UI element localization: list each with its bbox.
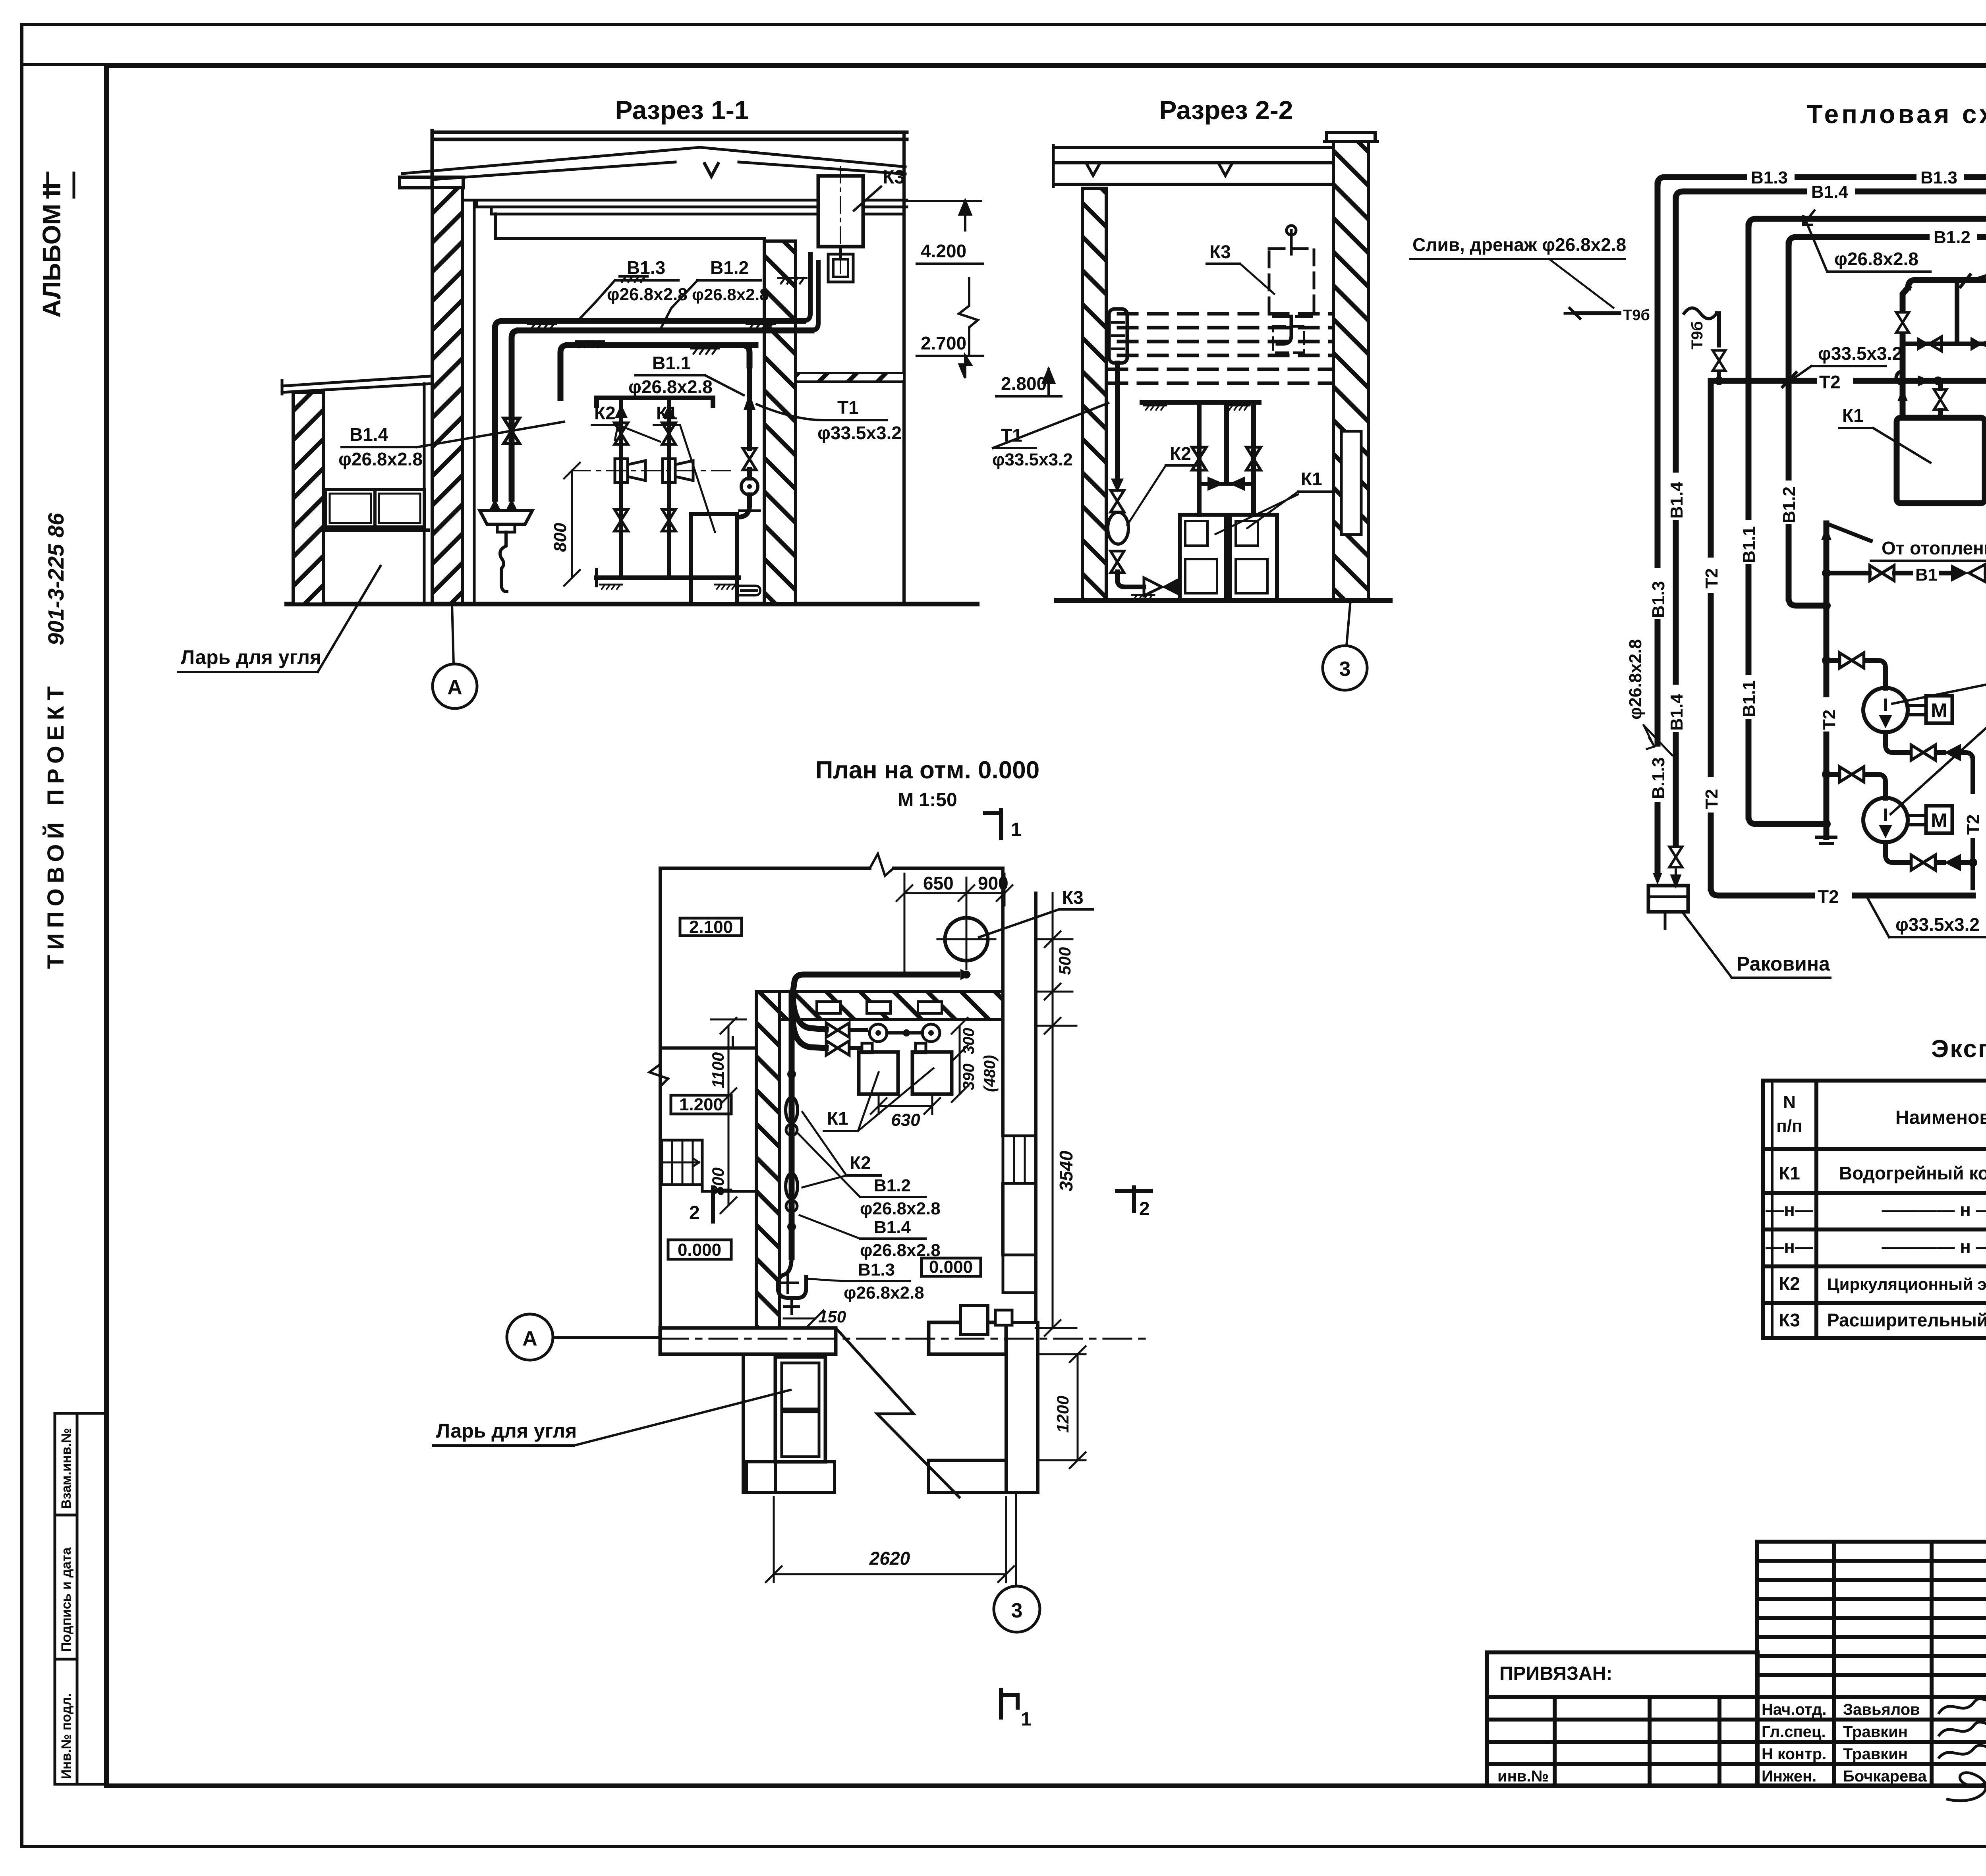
svg-text:К1: К1 [656, 403, 678, 423]
label 1.200 framed [671, 1095, 731, 1114]
svg-text:В1.3: В1.3 [858, 1260, 895, 1280]
svg-text:Разрез 1-1: Разрез 1-1 [615, 95, 749, 125]
svg-text:Наименование: Наименование [1895, 1107, 1986, 1128]
left wall hatched [432, 187, 462, 604]
svg-text:В1.4: В1.4 [1811, 182, 1848, 202]
bottom wall right band [929, 1322, 1006, 1354]
svg-text:К3: К3 [1209, 241, 1231, 262]
bottom wall centerline [660, 1338, 1152, 1340]
ceiling pipe over boilers [1142, 400, 1259, 405]
dim 150 [784, 1310, 823, 1326]
upper pump branch [1826, 658, 1837, 663]
pipe end detail bottom [778, 1257, 806, 1298]
svg-text:К2: К2 [594, 403, 616, 423]
section mark 2 right [1117, 1187, 1151, 1211]
axis circle A plan [507, 1314, 553, 1360]
pipe B1.3 top header [1658, 177, 1986, 190]
dim 630 [879, 1105, 932, 1107]
svg-text:0.000: 0.000 [678, 1240, 721, 1260]
svg-text:φ26.8х2.8: φ26.8х2.8 [607, 285, 688, 304]
svg-text:φ26.8х2.8: φ26.8х2.8 [628, 376, 713, 397]
label 0.000 framed right [922, 1258, 981, 1276]
svg-text:3540: 3540 [1056, 1150, 1076, 1191]
B1 make-up branch [1826, 571, 1869, 575]
svg-text:От отопления см. черт.ОВ: От отопления см. черт.ОВ [1882, 538, 1986, 558]
svg-text:Инжен.: Инжен. [1762, 1768, 1816, 1785]
porch right wall [1006, 1322, 1038, 1492]
up arrows into T2 crossing [1897, 388, 1908, 401]
svg-text:φ26.8х2.8: φ26.8х2.8 [1834, 249, 1918, 269]
svg-text:Т2: Т2 [1820, 710, 1839, 730]
label 2.100 framed [680, 918, 742, 936]
level mark 4.200 [907, 200, 981, 202]
tank risers through wall [803, 254, 818, 330]
svg-text:К1: К1 [827, 1108, 848, 1129]
riser T2 [1708, 381, 1714, 888]
svg-text:Расширительный БАК: Расширительный БАК [1827, 1310, 1986, 1330]
centerline dash through cones [572, 470, 735, 471]
section mark 1 bottom [1001, 1690, 1018, 1718]
black valve on downpipe [1111, 479, 1124, 492]
svg-text:В1.2: В1.2 [874, 1176, 911, 1195]
dim 2620 [774, 1573, 1006, 1575]
floor line [1057, 598, 1390, 603]
bottom wall left band [660, 1328, 836, 1354]
flow arrows on T2 header [1918, 375, 1931, 386]
T1 riser with arrow [747, 365, 752, 505]
svg-text:—н—: —н— [1766, 1236, 1813, 1257]
building top-left edge [431, 131, 434, 187]
pipe B1.1 top header [1748, 201, 1986, 226]
svg-text:φ33.5х3.2: φ33.5х3.2 [1818, 343, 1902, 364]
arrows into sink [1653, 873, 1662, 885]
svg-text:ПРИВЯЗАН:: ПРИВЯЗАН: [1499, 1663, 1612, 1684]
svg-text:Т2: Т2 [1702, 568, 1721, 589]
labels on B1.3 header [1747, 167, 1986, 246]
leader B1.4 [417, 422, 564, 447]
svg-text:2.700: 2.700 [921, 333, 966, 353]
valve below pump [1111, 551, 1124, 573]
svg-text:φ26.8х2.8: φ26.8х2.8 [860, 1199, 941, 1218]
plan gate valve 2 [790, 1168, 794, 1174]
coal bin box [775, 1357, 825, 1462]
boiler connections circles [869, 1024, 887, 1042]
sink trap [500, 532, 507, 592]
riser valves [1192, 447, 1206, 470]
top boundary break squiggle [870, 854, 894, 876]
porch bottom band left [746, 1462, 835, 1492]
right annex ceiling hatched band [796, 373, 904, 382]
svg-text:2.100: 2.100 [689, 917, 733, 937]
svg-text:К1: К1 [1779, 1163, 1800, 1183]
pump K2 oval [1108, 512, 1128, 544]
left privyazan block [1487, 1652, 1758, 1786]
left wall hatched [1082, 188, 1106, 600]
right wall column [1001, 868, 1005, 992]
T1 riser plate [1109, 309, 1127, 363]
pipe B1.4 top header [1676, 191, 1986, 199]
pump 1 discharge [1886, 732, 1909, 753]
axis circle 3 [1323, 646, 1367, 690]
svg-text:Циркуляционный электронасос: Циркуляционный электронасос [1827, 1275, 1986, 1293]
K3 dashed tank [1269, 249, 1314, 317]
top band line [22, 63, 1986, 66]
svg-text:2: 2 [689, 1202, 700, 1224]
dim 800 [571, 471, 573, 578]
right hatched column [764, 241, 796, 604]
svg-text:Т2: Т2 [1702, 789, 1721, 809]
dim line vertical interior [728, 1026, 730, 1205]
K3 tank circle on plan [945, 918, 988, 961]
valve on T1 riser [743, 448, 756, 470]
svg-text:В1.4: В1.4 [350, 424, 388, 445]
svg-text:В.1.3: В.1.3 [1649, 757, 1668, 799]
svg-text:Завьялов: Завьялов [1843, 1701, 1920, 1718]
valve on riser [504, 418, 520, 444]
ground marks on pipes [528, 324, 556, 330]
suction collector vertical [1824, 523, 1830, 837]
svg-text:φ26.8х2.8: φ26.8х2.8 [338, 449, 423, 469]
label 0.000 framed left [668, 1240, 731, 1259]
bottom manifold [597, 575, 739, 580]
svg-text:Инв.№ подл.: Инв.№ подл. [59, 1693, 74, 1779]
svg-text:630: 630 [891, 1110, 920, 1130]
line jump hooks at T2 crossings [1896, 371, 1903, 384]
feed stack left [619, 398, 623, 578]
svg-text:п/п: п/п [1776, 1116, 1802, 1136]
pump 1 circle [1863, 688, 1908, 732]
svg-text:N: N [1783, 1092, 1796, 1112]
svg-text:Т2: Т2 [1818, 886, 1839, 907]
feed stack right [667, 398, 671, 578]
vents in top wall [817, 1002, 840, 1013]
T1 header [1908, 280, 1986, 288]
roof slab lines [1053, 147, 1368, 184]
svg-text:1200: 1200 [1053, 1396, 1072, 1433]
break zigzag right [959, 278, 978, 353]
svg-text:В1.1: В1.1 [1739, 526, 1759, 563]
pipe B1.2 horizontal [519, 328, 811, 334]
svg-text:В1: В1 [1915, 565, 1938, 585]
right wall below band [902, 382, 906, 604]
lower pump branch [1826, 772, 1837, 777]
svg-text:Ларь для угля: Ларь для угля [436, 1420, 577, 1442]
floor line [287, 602, 977, 606]
svg-text:800: 800 [551, 523, 570, 552]
svg-text:М: М [1931, 809, 1947, 832]
svg-text:В1.3: В1.3 [1751, 168, 1788, 187]
svg-text:Травкин: Травкин [1843, 1745, 1908, 1763]
dim 3540/500 right [1052, 893, 1054, 1328]
svg-text:800: 800 [709, 1168, 727, 1195]
svg-text:А: А [522, 1327, 537, 1350]
interior face lines [780, 1018, 1003, 1021]
branch arrow on B1.1 header [1803, 210, 1814, 225]
top wall hatched band [756, 992, 1003, 1019]
svg-text:АЛЬБОМ II: АЛЬБОМ II [37, 183, 66, 318]
svg-text:Тепловая схема котельной: Тепловая схема котельной [1806, 99, 1986, 129]
svg-text:φ26.8х2.8: φ26.8х2.8 [1626, 639, 1645, 720]
svg-text:4.200: 4.200 [921, 241, 966, 261]
stairs [662, 1140, 702, 1185]
annex left wall hatched [293, 392, 324, 604]
T96 drain line left [1575, 311, 1648, 315]
svg-text:В1.2: В1.2 [1779, 486, 1799, 523]
valve-with-arrow at floor [1144, 578, 1162, 596]
svg-text:—н—: —н— [1766, 1199, 1813, 1220]
pipe B1.2 riser to tap [512, 330, 519, 499]
ground marks under manifold [600, 585, 622, 589]
svg-text:2620: 2620 [869, 1548, 910, 1569]
svg-text:инв.№: инв.№ [1497, 1768, 1549, 1785]
svg-text:———— н ————: ———— н ———— [1882, 1236, 1986, 1257]
svg-text:К2: К2 [1779, 1273, 1800, 1294]
svg-text:К3: К3 [1062, 887, 1084, 908]
svg-text:Подпись и дата: Подпись и дата [59, 1547, 74, 1652]
svg-text:φ26.8х2.8: φ26.8х2.8 [692, 285, 769, 304]
axis leader A [452, 604, 454, 664]
boiler inlet valves from T2 [1938, 381, 1943, 388]
svg-text:В1.1: В1.1 [652, 353, 691, 373]
svg-text:1100: 1100 [709, 1052, 727, 1088]
svg-text:Слив, дренаж φ26.8х2.8: Слив, дренаж φ26.8х2.8 [1412, 234, 1626, 255]
leader coal bin [318, 566, 381, 672]
svg-text:Т2: Т2 [1819, 372, 1841, 392]
svg-text:3: 3 [1011, 1599, 1023, 1622]
right wall outer edge [902, 132, 906, 382]
building top slab double line [432, 132, 907, 139]
svg-text:650: 650 [923, 873, 954, 894]
T2 bottom header [1711, 888, 1973, 896]
annex window band [326, 490, 424, 527]
T1 downpipe [1115, 363, 1120, 467]
left stamp column [55, 1413, 106, 1784]
svg-text:Водогрейный котел: Водогрейный котел [1839, 1163, 1986, 1183]
svg-text:К3: К3 [883, 167, 905, 188]
gauge circle on T1 riser [741, 478, 758, 495]
T2 label on discharge riser [1962, 794, 1982, 838]
svg-text:390: 390 [960, 1063, 978, 1090]
svg-text:К1: К1 [1301, 469, 1322, 489]
middle signatures column [1757, 1542, 1986, 1786]
ceiling line 2 [477, 200, 907, 207]
left wall hatched [756, 992, 780, 1328]
svg-text:φ33.5х3.2: φ33.5х3.2 [817, 423, 902, 443]
svg-text:В1.3: В1.3 [627, 257, 665, 278]
valves at boiler manifold top [793, 993, 826, 1029]
B1.1 bottom elbow to collector [1748, 816, 1826, 824]
svg-text:Травкин: Травкин [1843, 1723, 1908, 1741]
svg-text:Нач.отд.: Нач.отд. [1762, 1701, 1826, 1718]
pump 1 shaft and motor [1908, 705, 1926, 715]
svg-text:К2: К2 [850, 1152, 871, 1173]
svg-text:Т1: Т1 [837, 397, 859, 418]
svg-text:Бочкарева: Бочкарева [1843, 1768, 1927, 1785]
annex sill line [323, 529, 428, 532]
svg-text:300: 300 [960, 1028, 978, 1054]
dim 1200 right [1077, 1354, 1079, 1460]
right wall cap [1325, 133, 1377, 141]
pump 2 discharge [1886, 842, 1909, 863]
svg-text:В1.4: В1.4 [1667, 482, 1687, 519]
partition below stairs [702, 1140, 756, 1191]
plan outer boundary left [659, 868, 662, 1328]
roof lower line [433, 162, 905, 179]
svg-text:φ33.5х3.2: φ33.5х3.2 [1895, 914, 1980, 935]
interior ceiling line [496, 214, 764, 239]
roof gable outline [402, 147, 905, 174]
svg-text:0.000: 0.000 [929, 1257, 973, 1277]
T2 label on header [1817, 369, 1853, 392]
svg-text:φ26.8х2.8: φ26.8х2.8 [844, 1283, 924, 1303]
boiler K1 front [691, 514, 737, 604]
svg-text:901-3-225 86: 901-3-225 86 [43, 513, 68, 645]
ceiling line 3 [491, 207, 902, 214]
valve on T96 riser [1713, 350, 1725, 371]
K3 expansion tank [818, 176, 863, 247]
annex inner wall line [423, 384, 426, 604]
svg-text:Т9б: Т9б [1623, 307, 1650, 324]
axis circle 3 plan [994, 1586, 1040, 1632]
pump 2 circle [1863, 798, 1908, 842]
boiler 1 [1180, 515, 1226, 600]
roof V notch [705, 164, 718, 176]
eave slab left [400, 177, 463, 188]
tank stem pipe [1287, 226, 1296, 254]
boilers on plan [859, 1052, 898, 1094]
svg-text:Взам.инв.№: Взам.инв.№ [59, 1428, 74, 1509]
ground symbol at collector bottom [1817, 837, 1836, 843]
drain funnel below tank [839, 247, 842, 256]
section mark 1 top [985, 810, 1001, 838]
right wall hatched [1333, 141, 1368, 600]
svg-text:2: 2 [1139, 1199, 1150, 1220]
pump 2 shaft and motor [1908, 815, 1926, 825]
svg-text:Н контр.: Н контр. [1762, 1745, 1826, 1763]
svg-text:В1.4: В1.4 [874, 1218, 911, 1237]
svg-text:План на отм. 0.000: План на отм. 0.000 [815, 757, 1039, 784]
svg-text:3: 3 [1339, 658, 1351, 681]
svg-text:В1.2: В1.2 [710, 257, 749, 278]
svg-text:В1.3: В1.3 [1649, 581, 1668, 618]
sink box [1648, 886, 1688, 912]
boiler K1 left [1897, 418, 1985, 503]
T1 middle drop [1955, 280, 1959, 344]
riser B1.3 [1655, 185, 1661, 873]
svg-text:Гл.спец.: Гл.спец. [1762, 1723, 1826, 1741]
lobby partition [660, 1046, 756, 1050]
stack valves left [615, 404, 628, 418]
pipe B1.2 top header [1789, 201, 1986, 245]
stack valves right [663, 404, 675, 418]
svg-text:Т2: Т2 [1963, 814, 1983, 835]
elbow to floor manifold [1117, 572, 1144, 587]
svg-text:(480): (480) [981, 1055, 999, 1092]
equipment boxes on south wall [960, 1305, 988, 1334]
boiler risers [1199, 402, 1254, 515]
svg-text:В1.3: В1.3 [1920, 168, 1957, 187]
svg-text:φ33.5х3.2: φ33.5х3.2 [992, 450, 1073, 469]
B1.2 elbow into collector [1789, 598, 1826, 606]
left boundary break squiggle [649, 1064, 668, 1087]
svg-text:К3: К3 [1779, 1310, 1800, 1330]
riser B1.2 [1786, 245, 1792, 598]
svg-text:1: 1 [1011, 819, 1022, 840]
axis leader 3 [1347, 600, 1350, 646]
junction dots [1715, 376, 1986, 867]
pipe B1.3 elbow and riser to tap [495, 321, 502, 499]
check manifold [1903, 342, 1986, 346]
svg-text:Экспликация оборудования: Экспликация оборудования [1931, 1035, 1986, 1063]
bowtie on downpipe [1111, 490, 1124, 512]
svg-text:М: М [1931, 699, 1947, 722]
svg-text:Разрез 2-2: Разрез 2-2 [1159, 95, 1293, 125]
riser B1.4 [1673, 199, 1679, 844]
pipe B1.1 elbows [560, 345, 750, 398]
ot otopleniya entry [1826, 523, 1871, 541]
svg-text:1: 1 [1021, 1709, 1032, 1730]
leader K3 [854, 187, 881, 210]
entry break arrow [836, 1328, 959, 1497]
injector cones right [663, 459, 675, 483]
svg-text:φ26.8х2.8: φ26.8х2.8 [860, 1241, 941, 1260]
svg-text:150: 150 [818, 1307, 846, 1326]
svg-text:Т9б: Т9б [1688, 321, 1706, 349]
svg-text:К2: К2 [1170, 443, 1191, 464]
signatures squiggles [1938, 1694, 1986, 1801]
svg-text:В1.2: В1.2 [1934, 228, 1971, 247]
main riser pipe along left wall [789, 993, 795, 1257]
T1 elbow into boiler [738, 505, 750, 517]
drain tube at boiler bottom [739, 586, 760, 595]
dashed elbow box below tank [1273, 326, 1304, 353]
T1 boiler drop left [1903, 288, 1908, 310]
svg-text:ТИПОВОЙ ПРОЕКТ: ТИПОВОЙ ПРОЕКТ [43, 681, 69, 969]
K3 tank centerline [840, 167, 841, 278]
pipe B1.1 horizontal [568, 342, 755, 348]
windows in right wall [1003, 1136, 1036, 1183]
svg-text:Раковина: Раковина [1737, 953, 1830, 975]
valve on B1.4 riser bottom [1669, 847, 1682, 867]
svg-text:А: А [447, 676, 462, 699]
section mark 2 left [713, 1187, 730, 1222]
sink basin [480, 511, 532, 524]
injector cones left [615, 459, 628, 483]
svg-text:500: 500 [1055, 947, 1074, 975]
plan gate valve 1 [790, 1091, 794, 1098]
ceiling line 1 [463, 199, 907, 202]
riser B1.1 [1746, 226, 1752, 816]
porch bottom band right [929, 1460, 1006, 1492]
svg-text:В1.1: В1.1 [1739, 680, 1759, 717]
boiler 2 [1230, 515, 1277, 600]
cross manifold with check arrows [1199, 482, 1254, 486]
svg-text:———— н ————: ———— н ———— [1882, 1199, 1986, 1220]
porch left wall [743, 1354, 775, 1492]
collector T2 label [1816, 697, 1837, 731]
door gap in right wall [1341, 431, 1361, 535]
dim 300 390 (480) [959, 1026, 961, 1094]
taps over sink [489, 499, 517, 510]
svg-text:В1.4: В1.4 [1667, 694, 1687, 731]
dashed ceiling pipes [1108, 314, 1331, 383]
riser vertical labels [1649, 473, 1799, 813]
plan outer boundary top with break [660, 867, 1003, 870]
svg-text:2.800: 2.800 [1001, 373, 1047, 394]
svg-text:Ларь для угля: Ларь для угля [181, 646, 321, 668]
left wall inner face [473, 200, 476, 604]
svg-text:К1: К1 [1842, 405, 1864, 426]
